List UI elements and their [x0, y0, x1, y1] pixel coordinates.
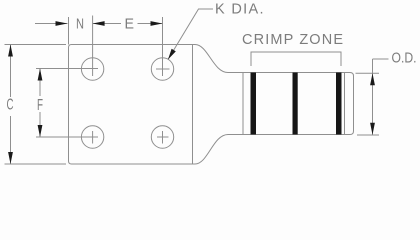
svg-text:K DIA.: K DIA.	[215, 2, 264, 18]
svg-text:F: F	[37, 97, 43, 114]
svg-text:CRIMP ZONE: CRIMP ZONE	[242, 32, 343, 48]
svg-text:E: E	[125, 16, 135, 33]
svg-text:O.D.: O.D.	[392, 51, 417, 67]
svg-text:N: N	[76, 16, 84, 33]
svg-text:C: C	[7, 97, 14, 114]
